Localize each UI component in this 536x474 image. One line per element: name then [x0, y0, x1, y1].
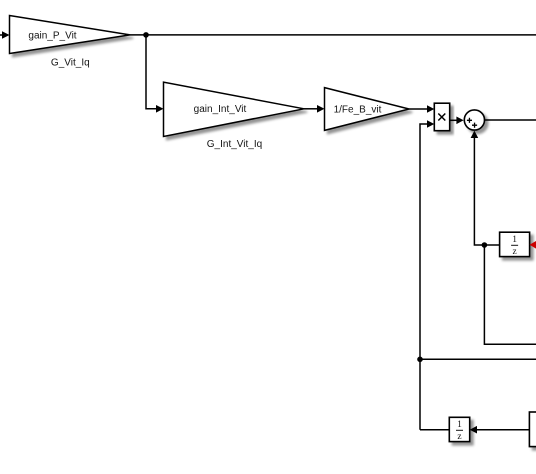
unit delay U1 (1/z, mirrored) — [500, 232, 530, 257]
wire: unit delay U2 output left to feedback vertical — [420, 429, 449, 431]
wire: unit delay 1 output up into sum bottom input — [471, 131, 500, 245]
node: junction on feedback vertical — [417, 357, 423, 363]
wire: sum output to right edge — [485, 119, 536, 121]
node: junction on delay output — [482, 242, 488, 248]
svg-text:gain_P_Vit: gain_P_Vit — [28, 31, 76, 42]
wire: product output to sum — [450, 117, 464, 125]
wire: feedback vertical to product input 2 — [420, 120, 434, 430]
label G_Vit_Iq — [51, 58, 90, 69]
svg-text:1: 1 — [512, 235, 517, 245]
svg-text:1/Fe_B_vit: 1/Fe_B_vit — [334, 105, 382, 116]
wire: junction down to gain_Int_Vit input — [146, 35, 164, 113]
svg-text:z: z — [512, 247, 516, 257]
wire: gain_P_Vit output to right edge — [130, 34, 536, 36]
sum block (++) — [464, 110, 484, 130]
wire: gain_Int_Vit output to 1/Fe_B_vit — [304, 105, 325, 113]
gain 1/Fe_B_vit — [325, 88, 410, 131]
block at right edge (partial) — [529, 412, 536, 447]
product block (x) — [434, 103, 449, 131]
gain G_Vit_Iq (gain_P_Vit) — [10, 16, 131, 54]
unit delay U2 (1/z, mirrored, bottom) — [449, 417, 469, 442]
node: branch junction after gain_P_Vit — [143, 32, 149, 38]
svg-text:G_Int_Vit_Iq: G_Int_Vit_Iq — [207, 139, 262, 150]
wire: input into gain_P_Vit — [0, 31, 10, 39]
gain G_Int_Vit_Iq (gain_Int_Vit) — [164, 82, 305, 136]
wire: block at right edge into unit delay U2 — [470, 426, 530, 434]
svg-text:gain_Int_Vit: gain_Int_Vit — [194, 104, 247, 115]
svg-text:1: 1 — [457, 420, 462, 430]
wire: red input into unit delay U1 from right edge — [530, 241, 536, 249]
svg-text:G_Vit_Iq: G_Vit_Iq — [51, 58, 90, 69]
label G_Int_Vit_Iq — [207, 139, 262, 150]
wire: 1/Fe_B_vit output to product input 1 — [409, 105, 434, 113]
wire: junction down and right to edge — [484, 245, 536, 344]
svg-text:z: z — [457, 432, 461, 442]
wire: junction to right edge — [420, 358, 536, 360]
